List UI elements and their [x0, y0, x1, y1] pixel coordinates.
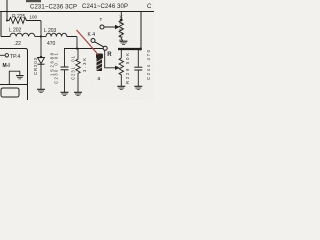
ground C230: [61, 92, 69, 95]
potentiometer R247 top lead: [120, 49, 122, 57]
node at x41 y36.5: [40, 35, 42, 37]
node bus/L203: [76, 47, 78, 49]
wire thick bus2: [118, 48, 142, 50]
capacitor C243 plates: [134, 67, 142, 70]
wire pot2 bottom lead: [120, 76, 122, 86]
label C241-C246 30P: [82, 4, 128, 10]
wire C243 bottom lead: [137, 70, 139, 86]
label 1S2688 vertical: [50, 52, 55, 76]
wire top bus y=11.5: [0, 11, 154, 13]
ground internal M-1: [16, 76, 24, 79]
label C (cropped at right edge): [147, 4, 152, 10]
wire 3.3K bottom lead: [77, 75, 79, 93]
node diode top: [40, 56, 42, 58]
top edge smudge: [26, 0, 41, 2]
resistor R225: [7, 18, 29, 24]
potentiometer R247 element: [119, 57, 123, 76]
capacitor C243 top lead: [137, 49, 139, 67]
resistor 3.3K top lead: [77, 49, 79, 59]
label R 225: [12, 14, 26, 20]
label C231 vertical: [71, 55, 76, 80]
ground C243: [134, 86, 142, 89]
label R contact: [107, 52, 112, 58]
resistor 3.3K vertical zigzag: [76, 58, 80, 75]
inductor L203: [46, 33, 67, 36]
ground 3.3K: [74, 92, 82, 95]
switch K4 contact R: [103, 46, 107, 50]
label 100: [30, 15, 38, 20]
wire L203 right, corner down to bus: [67, 37, 77, 49]
ground pot2: [117, 86, 125, 89]
wire wiper2 from contact R: [105, 50, 116, 68]
red marker line: [77, 30, 99, 55]
label a mark: [98, 76, 101, 82]
wiper1 arrowhead: [115, 25, 120, 29]
wire mid bus y=48.5: [64, 48, 104, 50]
label R245 50K vertical: [119, 15, 124, 42]
capacitor C230 plates: [61, 67, 69, 70]
label M-I: [3, 63, 11, 69]
striped bar top blob: [96, 54, 103, 59]
potentiometer R245 element: [119, 20, 123, 39]
highlighted resistor striped bar: [97, 54, 103, 71]
module box M-1 divider: [0, 84, 28, 86]
wiper terminal circle: [100, 25, 104, 29]
wire L202 to L203 with junction: [35, 36, 46, 38]
wire pot1 bottom lead: [121, 39, 123, 41]
inductor L202: [1, 33, 35, 36]
label CR203 vertical: [33, 57, 38, 75]
node pot1 top: [120, 19, 123, 22]
node bus2/rail: [139, 48, 142, 51]
test point TP.4 wire: [0, 54, 5, 56]
label C230 0.01 vertical: [54, 52, 59, 84]
paper background: [0, 0, 154, 100]
wire left rail x=1: [0, 11, 2, 37]
label R247 50K vertical: [125, 53, 130, 84]
wire wiper1: [104, 26, 116, 28]
wire vertical feed x=7: [6, 0, 8, 21]
wire diode top lead: [40, 37, 42, 58]
wire C230 top lead: [64, 49, 66, 67]
test point TP.4 terminal: [5, 54, 8, 57]
label K 4: [88, 32, 96, 38]
diode CR203: [38, 58, 45, 65]
ground pot1: [120, 41, 128, 44]
scan grain overlay: [0, 0, 154, 100]
wire C230 bottom lead: [64, 70, 66, 92]
wire right rail: [140, 12, 142, 50]
module box M-1 outline: [0, 49, 28, 101]
label .22: [14, 41, 21, 47]
wiper2 arrowhead: [115, 66, 120, 70]
switch K4 blade: [95, 42, 104, 47]
label C231-C236 3CP: [30, 5, 77, 11]
label L 203: [44, 28, 57, 34]
wire diode bottom lead: [40, 64, 42, 89]
potentiometer R245 top lead: [120, 12, 122, 20]
label L 202: [9, 28, 22, 34]
wire internal ground stub: [9, 71, 19, 84]
label 470: [47, 41, 56, 47]
switch K4 pivot contact: [91, 39, 95, 43]
label TP.4: [10, 54, 20, 60]
label C243 470 vertical: [146, 49, 151, 80]
ground diode: [37, 89, 45, 92]
node R225/L junction: [6, 20, 8, 22]
connector rounded box: [1, 88, 19, 97]
label T tick: [100, 17, 103, 22]
wire R225 to corner, down to node: [29, 21, 42, 37]
label 3.3K vertical: [82, 58, 87, 72]
